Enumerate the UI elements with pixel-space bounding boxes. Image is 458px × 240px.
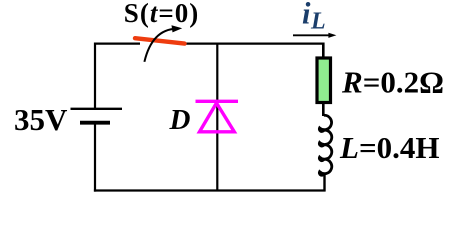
svg-text:L=0.4H: L=0.4H <box>339 130 439 165</box>
wire right drop to resistor <box>322 43 325 59</box>
switch S red blade <box>135 38 185 43</box>
battery V1 short plate <box>80 121 110 125</box>
diode D symbol <box>196 101 239 132</box>
resistor R1 body <box>317 58 331 103</box>
wire resistor to inductor <box>322 102 325 116</box>
wire inductor to bottom <box>323 174 325 192</box>
svg-text:35V: 35V <box>14 102 68 137</box>
battery V1 long plate <box>71 108 123 110</box>
svg-text:D: D <box>169 104 191 136</box>
wire left vertical upper <box>94 43 96 110</box>
wire top-left segment <box>94 42 140 44</box>
svg-text:iL: iL <box>302 0 326 34</box>
wire top-right segment <box>185 42 323 44</box>
wire middle vertical <box>216 44 218 191</box>
arrow iL direction <box>293 34 329 36</box>
switch closing arc arrow <box>144 29 176 62</box>
svg-text:S(t=0): S(t=0) <box>124 0 199 28</box>
svg-text:R=0.2Ω: R=0.2Ω <box>341 65 444 100</box>
inductor L1 coil <box>319 115 331 175</box>
wire left vertical lower <box>94 123 96 192</box>
wire bottom <box>94 189 326 191</box>
